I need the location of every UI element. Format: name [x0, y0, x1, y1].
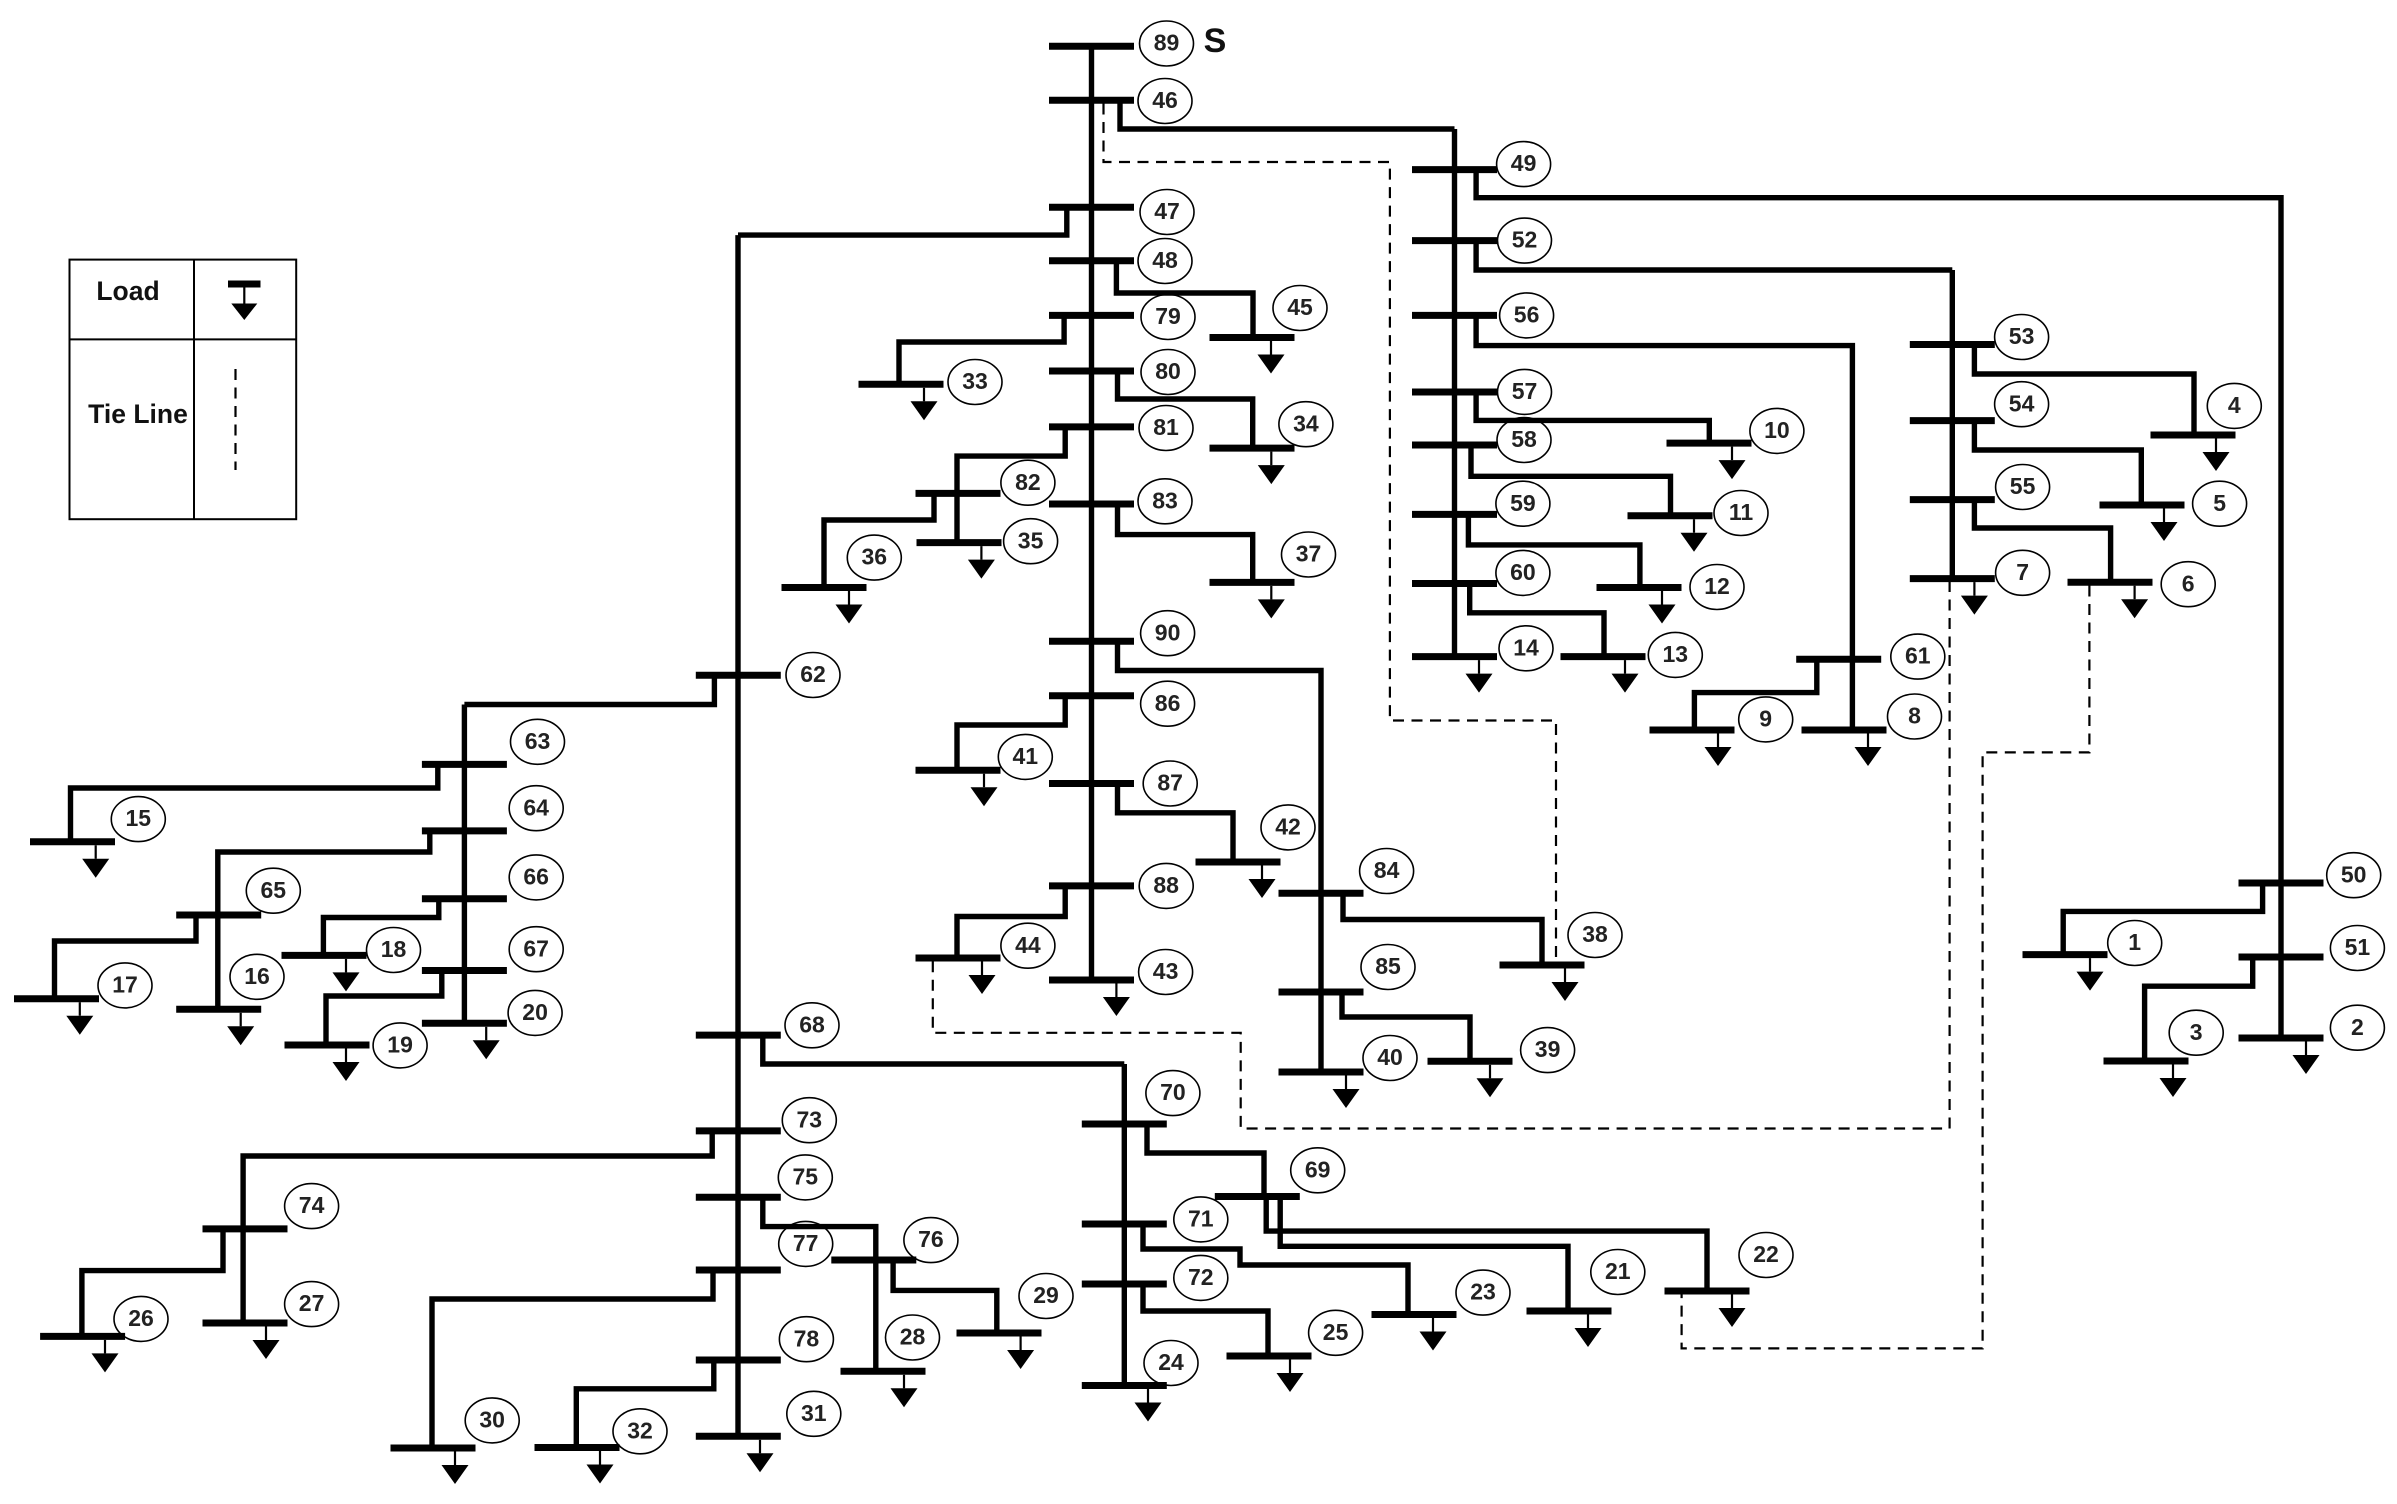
load at bus 18 — [333, 959, 360, 992]
load at bus 43 — [1103, 984, 1130, 1017]
wire 84-38 — [1343, 893, 1542, 965]
node 9 label — [1739, 697, 1793, 742]
wire feeder 70-24 — [1122, 1064, 1127, 1386]
bus 23 bar — [1372, 1311, 1457, 1318]
node 24 label — [1144, 1341, 1198, 1386]
wire 50-1 — [2063, 883, 2262, 955]
svg-text:88: 88 — [1153, 872, 1179, 898]
wire 83-37 — [1118, 504, 1253, 582]
bus 21 bar — [1527, 1308, 1612, 1315]
bus 28 bar — [841, 1368, 926, 1375]
svg-text:14: 14 — [1513, 634, 1539, 660]
svg-text:64: 64 — [523, 794, 549, 820]
node 36 label — [847, 535, 901, 580]
bus 25 bar — [1227, 1353, 1312, 1360]
bus 49 bar — [1412, 166, 1497, 173]
wire feeder 62-31 — [735, 235, 740, 1436]
node 27 label — [285, 1282, 339, 1327]
node 16 label — [230, 954, 284, 999]
load at bus 21 — [1575, 1315, 1602, 1348]
node 50 label — [2327, 853, 2381, 898]
node 66 label — [509, 855, 563, 900]
svg-text:4: 4 — [2228, 392, 2241, 418]
svg-text:36: 36 — [862, 544, 888, 570]
node 18 label — [367, 928, 421, 973]
wire feeder 89-43 — [1089, 46, 1094, 980]
svg-text:78: 78 — [794, 1325, 820, 1351]
bus 84 bar — [1279, 890, 1364, 897]
svg-text:S: S — [1204, 22, 1227, 60]
bus 38 bar — [1500, 962, 1585, 969]
svg-text:46: 46 — [1152, 87, 1178, 113]
load at bus 14 — [1466, 660, 1493, 693]
svg-text:19: 19 — [387, 1031, 413, 1057]
bus 31 bar — [696, 1433, 781, 1440]
wire 47-62 head — [738, 207, 1067, 235]
load at bus 42 — [1249, 866, 1276, 899]
svg-text:17: 17 — [112, 971, 138, 997]
svg-text:66: 66 — [523, 863, 549, 889]
node 22 label — [1739, 1233, 1793, 1278]
node 41 label — [998, 734, 1052, 779]
load at bus 5 — [2151, 509, 2178, 542]
svg-text:81: 81 — [1153, 414, 1179, 440]
tie line 6-22 — [1682, 586, 2090, 1349]
node 73 label — [782, 1098, 836, 1143]
load at bus 10 — [1719, 447, 1746, 480]
bus 62 bar — [696, 672, 781, 679]
node 43 label — [1139, 950, 1193, 995]
load at bus 26 — [92, 1340, 119, 1373]
bus 88 bar — [1049, 882, 1134, 889]
node 58 label — [1497, 418, 1551, 463]
wire 75-76-28 — [763, 1197, 876, 1371]
wire 48-45 — [1116, 261, 1253, 338]
wire 63-15 — [71, 764, 438, 841]
bus 2 bar — [2239, 1035, 2324, 1042]
load at bus 32 — [587, 1451, 614, 1484]
bus 72 bar — [1082, 1281, 1167, 1288]
wire 58-11 — [1471, 445, 1671, 516]
bus 71 bar — [1082, 1221, 1167, 1228]
wire 87-42 — [1118, 784, 1234, 863]
node 46 label — [1138, 79, 1192, 124]
node 2 label — [2330, 1005, 2384, 1050]
node 4 label — [2207, 383, 2261, 428]
bus 59 bar — [1412, 511, 1497, 518]
node 86 label — [1141, 681, 1195, 726]
load at bus 31 — [747, 1440, 774, 1473]
wire 73-74-27 — [243, 1131, 712, 1323]
node 47 label — [1140, 190, 1194, 235]
bus 33 bar — [859, 381, 944, 388]
load at bus 4 — [2203, 439, 2230, 472]
node 13 label — [1648, 632, 1702, 677]
bus 26 bar — [40, 1333, 125, 1340]
load at bus 12 — [1649, 591, 1676, 624]
svg-text:59: 59 — [1510, 490, 1536, 516]
bus 15 bar — [30, 838, 115, 845]
node 84 label — [1360, 849, 1414, 894]
svg-text:10: 10 — [1764, 417, 1790, 443]
svg-text:71: 71 — [1188, 1205, 1214, 1231]
svg-text:38: 38 — [1582, 921, 1608, 947]
bus 27 bar — [203, 1320, 288, 1327]
svg-text:Load: Load — [96, 276, 159, 306]
node 76 label — [904, 1218, 958, 1263]
load at bus 25 — [1277, 1360, 1304, 1393]
node 56 label — [1500, 293, 1554, 338]
svg-text:28: 28 — [900, 1324, 926, 1350]
svg-text:68: 68 — [799, 1011, 825, 1037]
svg-text:41: 41 — [1013, 743, 1039, 769]
svg-text:15: 15 — [126, 805, 152, 831]
load at bus 17 — [66, 1002, 93, 1034]
load at bus 7 — [1961, 582, 1988, 615]
node 30 label — [465, 1398, 519, 1443]
wire 64-65-16 — [218, 831, 430, 1009]
node 40 label — [1363, 1036, 1417, 1081]
node 12 label — [1690, 565, 1744, 610]
bus 14 bar — [1412, 653, 1497, 660]
load at bus 34 — [1258, 452, 1285, 485]
node 17 label — [98, 963, 152, 1008]
bus 7 bar — [1910, 575, 1995, 582]
bus 66 bar — [422, 895, 507, 902]
node 62 label — [786, 653, 840, 698]
node 65 label — [246, 868, 300, 913]
bus 81 bar — [1049, 423, 1134, 430]
svg-text:18: 18 — [381, 936, 407, 962]
node 68 label — [785, 1003, 839, 1048]
load at bus 28 — [891, 1375, 918, 1408]
bus 57 bar — [1412, 389, 1497, 396]
bus 52 bar — [1412, 237, 1497, 244]
node 70 label — [1146, 1071, 1200, 1116]
bus 16 bar — [176, 1006, 261, 1013]
bus 87 bar — [1049, 780, 1134, 787]
wire 68-70 head — [763, 1035, 1125, 1064]
wire 69-21 — [1280, 1197, 1568, 1312]
wire 72-25 — [1143, 1284, 1268, 1356]
wire 90-84 feeder — [1118, 641, 1322, 1072]
legend box — [70, 260, 297, 520]
wire 53-4 — [1974, 345, 2194, 436]
bus 22 bar — [1665, 1288, 1750, 1295]
bus 67 bar — [422, 967, 507, 974]
node 53 label — [1995, 315, 2049, 360]
load at bus 20 — [473, 1027, 500, 1060]
node 79 label — [1141, 295, 1195, 340]
bus 39 bar — [1428, 1058, 1513, 1065]
load at bus 1 — [2077, 958, 2104, 991]
wire feeder 63-20 — [462, 705, 467, 1024]
wire 76-29 — [893, 1260, 997, 1333]
svg-text:82: 82 — [1015, 469, 1041, 495]
wire 88-44 — [957, 886, 1065, 958]
bus 46 bar — [1049, 97, 1134, 104]
wire 66-18 — [323, 899, 438, 956]
node 28 label — [886, 1315, 940, 1360]
bus 20 bar — [422, 1020, 507, 1027]
node 48 label — [1138, 239, 1192, 284]
bus 69 bar — [1215, 1193, 1300, 1200]
node 78 label — [779, 1317, 833, 1362]
bus 12 bar — [1597, 584, 1682, 591]
wire 67-19 — [326, 971, 442, 1046]
load at bus 40 — [1333, 1076, 1360, 1109]
svg-text:49: 49 — [1511, 150, 1537, 176]
svg-text:5: 5 — [2213, 490, 2226, 516]
bus 44 bar — [916, 955, 1001, 962]
node 31 label — [787, 1391, 841, 1436]
svg-text:23: 23 — [1470, 1279, 1496, 1305]
svg-text:86: 86 — [1155, 690, 1181, 716]
wire 57-10 — [1476, 392, 1709, 443]
node 29 label — [1019, 1274, 1073, 1319]
bus 89 bar — [1049, 43, 1134, 50]
bus 13 bar — [1561, 653, 1646, 660]
svg-text:60: 60 — [1510, 559, 1536, 585]
node 87 label — [1143, 761, 1197, 806]
svg-text:32: 32 — [627, 1417, 653, 1443]
svg-text:54: 54 — [2009, 390, 2035, 416]
wire 74-26 — [82, 1229, 223, 1337]
bus 56 bar — [1412, 312, 1497, 319]
svg-text:50: 50 — [2341, 861, 2367, 887]
tie line 46-38 — [1104, 104, 1557, 963]
bus 50 bar — [2239, 880, 2324, 887]
bus 6 bar — [2068, 579, 2153, 586]
node 6 label — [2161, 562, 2215, 607]
wire 65-17 — [55, 915, 197, 999]
load at bus 2 — [2293, 1042, 2320, 1075]
wire 56-61-8 — [1476, 315, 1852, 730]
bus 11 bar — [1628, 512, 1713, 519]
svg-text:39: 39 — [1535, 1036, 1561, 1062]
bus 80 bar — [1049, 368, 1134, 375]
svg-text:29: 29 — [1033, 1282, 1059, 1308]
svg-text:33: 33 — [962, 368, 988, 394]
node 11 label — [1714, 491, 1768, 536]
bus 41 bar — [916, 767, 1001, 774]
node 33 label — [948, 360, 1002, 405]
bus 79 bar — [1049, 312, 1134, 319]
svg-text:42: 42 — [1275, 813, 1301, 839]
svg-text:27: 27 — [299, 1290, 325, 1316]
wire 80-34 — [1118, 371, 1253, 448]
svg-text:74: 74 — [299, 1192, 325, 1218]
load at bus 30 — [442, 1452, 469, 1485]
load at bus 22 — [1719, 1295, 1746, 1328]
svg-text:51: 51 — [2345, 934, 2371, 960]
bus 10 bar — [1667, 440, 1752, 447]
load at bus 8 — [1855, 734, 1882, 767]
svg-text:53: 53 — [2009, 323, 2035, 349]
wire 70-69 — [1147, 1124, 1264, 1197]
load at bus 38 — [1552, 969, 1579, 1002]
svg-text:80: 80 — [1155, 358, 1181, 384]
load at bus 23 — [1420, 1318, 1447, 1351]
bus 58 bar — [1412, 442, 1497, 449]
load at bus 16 — [227, 1013, 254, 1046]
svg-text:57: 57 — [1512, 378, 1538, 404]
node 52 label — [1498, 218, 1552, 263]
load at bus 9 — [1705, 734, 1732, 767]
svg-text:3: 3 — [2190, 1019, 2203, 1045]
node 69 label — [1291, 1148, 1345, 1193]
bus 82 bar — [916, 490, 1001, 497]
bus 17 bar — [14, 995, 99, 1002]
svg-text:47: 47 — [1154, 198, 1180, 224]
svg-text:76: 76 — [918, 1226, 944, 1252]
svg-text:13: 13 — [1663, 641, 1689, 667]
bus 75 bar — [696, 1194, 781, 1201]
svg-text:84: 84 — [1374, 857, 1400, 883]
bus 76 bar — [831, 1257, 916, 1264]
svg-text:73: 73 — [797, 1106, 823, 1132]
wire 59-12 — [1468, 514, 1640, 587]
bus 85 bar — [1279, 989, 1364, 996]
svg-text:52: 52 — [1512, 227, 1538, 253]
wire 62-63 head — [464, 675, 714, 704]
node 85 label — [1361, 945, 1415, 990]
svg-text:24: 24 — [1158, 1349, 1184, 1375]
node 67 label — [509, 927, 563, 972]
bus 51 bar — [2239, 954, 2324, 961]
wire 51-3 — [2145, 957, 2253, 1061]
node 55 label — [1996, 465, 2050, 510]
wire 71-23 — [1143, 1224, 1408, 1315]
svg-text:30: 30 — [479, 1406, 505, 1432]
svg-text:85: 85 — [1375, 953, 1401, 979]
bus 74 bar — [203, 1225, 288, 1232]
svg-text:35: 35 — [1018, 527, 1044, 553]
node 21 label — [1591, 1250, 1645, 1295]
load at bus 11 — [1681, 519, 1708, 552]
bus 55 bar — [1910, 496, 1995, 503]
svg-text:89: 89 — [1154, 30, 1180, 56]
svg-text:44: 44 — [1015, 932, 1041, 958]
svg-text:58: 58 — [1511, 426, 1537, 452]
node 37 label — [1282, 532, 1336, 577]
node 5 label — [2193, 481, 2247, 526]
load at bus 33 — [911, 388, 938, 421]
bus 32 bar — [535, 1444, 620, 1451]
bus 54 bar — [1910, 417, 1995, 424]
load at bus 15 — [82, 845, 109, 878]
node 72 label — [1174, 1255, 1228, 1300]
bus 63 bar — [422, 761, 507, 768]
load at bus 44 — [969, 962, 996, 995]
node 23 label — [1456, 1270, 1510, 1315]
node 20 label — [508, 990, 562, 1035]
wire 85-39 — [1342, 992, 1470, 1061]
node 57 label — [1498, 369, 1552, 414]
wire feeder 49-14 — [1452, 129, 1457, 657]
svg-text:61: 61 — [1905, 643, 1931, 669]
node 3 label — [2169, 1010, 2223, 1055]
node 7 label — [1996, 550, 2050, 595]
legend load symbol — [228, 284, 261, 320]
load at bus 29 — [1007, 1337, 1034, 1370]
load at bus 39 — [1477, 1065, 1504, 1098]
bus 43 bar — [1049, 977, 1134, 984]
svg-text:72: 72 — [1188, 1264, 1214, 1290]
bus 8 bar — [1802, 727, 1887, 734]
svg-text:2: 2 — [2351, 1014, 2364, 1040]
bus 70 bar — [1082, 1121, 1167, 1128]
node 26 label — [114, 1296, 168, 1341]
wire feeder 53-7 — [1950, 270, 1955, 579]
node 71 label — [1174, 1197, 1228, 1242]
bus 61 bar — [1796, 656, 1881, 663]
svg-text:69: 69 — [1305, 1156, 1331, 1182]
node 42 label — [1261, 805, 1315, 850]
bus 36 bar — [782, 584, 867, 591]
bus 37 bar — [1210, 579, 1295, 586]
svg-text:34: 34 — [1293, 410, 1319, 436]
svg-text:48: 48 — [1152, 247, 1178, 273]
node 88 label — [1139, 863, 1193, 908]
node 82 label — [1001, 460, 1055, 505]
load at bus 6 — [2121, 586, 2148, 619]
bus 1 bar — [2023, 951, 2108, 958]
wire 49-50 feeder — [1476, 170, 2281, 1038]
svg-text:1: 1 — [2128, 929, 2141, 955]
svg-text:6: 6 — [2182, 570, 2195, 596]
svg-text:65: 65 — [261, 877, 287, 903]
node 14 label — [1499, 626, 1553, 671]
node 10 label — [1750, 408, 1804, 453]
svg-text:7: 7 — [2016, 559, 2029, 585]
node 59 label — [1496, 481, 1550, 526]
bus 83 bar — [1049, 501, 1134, 508]
bus 3 bar — [2104, 1058, 2189, 1065]
node 1 label — [2108, 921, 2162, 966]
svg-text:11: 11 — [1729, 499, 1754, 525]
load at bus 41 — [971, 774, 998, 807]
svg-text:21: 21 — [1605, 1258, 1631, 1284]
node 81 label — [1139, 406, 1193, 451]
node 74 label — [285, 1184, 339, 1229]
bus 48 bar — [1049, 257, 1134, 264]
svg-text:9: 9 — [1759, 705, 1772, 731]
node 51 label — [2330, 926, 2384, 971]
node 61 label — [1891, 634, 1945, 679]
load at bus 37 — [1258, 586, 1285, 619]
bus 45 bar — [1210, 334, 1295, 341]
svg-text:62: 62 — [800, 661, 826, 687]
svg-text:22: 22 — [1753, 1241, 1779, 1267]
node 8 label — [1888, 694, 1942, 739]
svg-text:40: 40 — [1377, 1044, 1403, 1070]
wire 69-22 — [1266, 1197, 1707, 1292]
svg-text:90: 90 — [1155, 619, 1181, 645]
wire 77-30 — [432, 1270, 713, 1448]
bus 60 bar — [1412, 580, 1497, 587]
load at bus 24 — [1135, 1389, 1162, 1422]
wire 46-49 feeder head — [1120, 100, 1455, 129]
svg-text:56: 56 — [1514, 301, 1540, 327]
svg-text:87: 87 — [1157, 770, 1183, 796]
node 60 label — [1496, 550, 1550, 595]
node 54 label — [1995, 382, 2049, 427]
wire 82-36 — [824, 493, 934, 587]
wire 78-32 — [576, 1360, 714, 1448]
node 45 label — [1273, 286, 1327, 331]
svg-text:20: 20 — [522, 999, 548, 1025]
